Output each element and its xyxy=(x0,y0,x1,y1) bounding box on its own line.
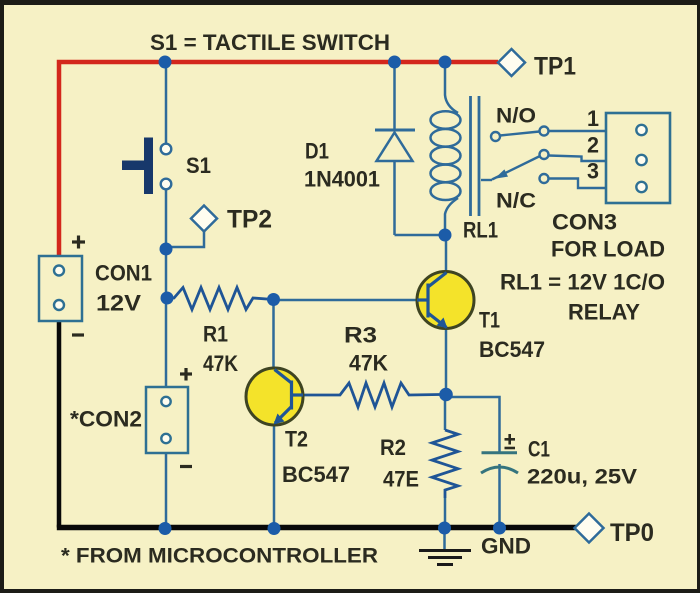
svg-text:FOR LOAD: FOR LOAD xyxy=(551,237,665,262)
svg-text:T1: T1 xyxy=(479,308,500,333)
svg-text:CON1: CON1 xyxy=(95,261,152,286)
svg-text:12V: 12V xyxy=(96,291,141,316)
svg-text:TP1: TP1 xyxy=(534,53,576,81)
svg-text:GND: GND xyxy=(481,534,531,559)
svg-text:47K: 47K xyxy=(203,351,238,376)
svg-text:*CON2: *CON2 xyxy=(70,407,142,432)
svg-text:CON3: CON3 xyxy=(552,210,617,235)
svg-text:47K: 47K xyxy=(349,351,388,376)
svg-text:R1: R1 xyxy=(203,322,228,347)
svg-text:RL1 = 12V 1C/O: RL1 = 12V 1C/O xyxy=(500,270,665,295)
svg-text:1N4001: 1N4001 xyxy=(304,167,380,192)
svg-text:T2: T2 xyxy=(285,427,308,452)
svg-text:RELAY: RELAY xyxy=(568,300,640,325)
svg-text:N/O: N/O xyxy=(496,105,536,128)
svg-text:C1: C1 xyxy=(528,437,550,462)
svg-text:TP2: TP2 xyxy=(227,206,272,234)
svg-text:R3: R3 xyxy=(344,323,377,348)
svg-text:S1 = TACTILE SWITCH: S1 = TACTILE SWITCH xyxy=(150,30,390,55)
svg-text:220u, 25V: 220u, 25V xyxy=(527,466,637,489)
svg-text:D1: D1 xyxy=(305,139,329,164)
svg-text:BC547: BC547 xyxy=(479,337,545,362)
svg-text:TP0: TP0 xyxy=(610,519,654,547)
svg-text:BC547: BC547 xyxy=(282,462,350,487)
svg-text:S1: S1 xyxy=(186,153,211,178)
svg-text:N/C: N/C xyxy=(496,190,536,213)
svg-text:47E: 47E xyxy=(383,467,419,492)
svg-text:RL1: RL1 xyxy=(463,218,498,243)
svg-text:* FROM MICROCONTROLLER: * FROM MICROCONTROLLER xyxy=(61,545,378,568)
svg-text:R2: R2 xyxy=(380,435,406,460)
svg-text:3: 3 xyxy=(587,159,599,184)
svg-text:2: 2 xyxy=(587,133,599,158)
svg-text:1: 1 xyxy=(587,106,599,131)
